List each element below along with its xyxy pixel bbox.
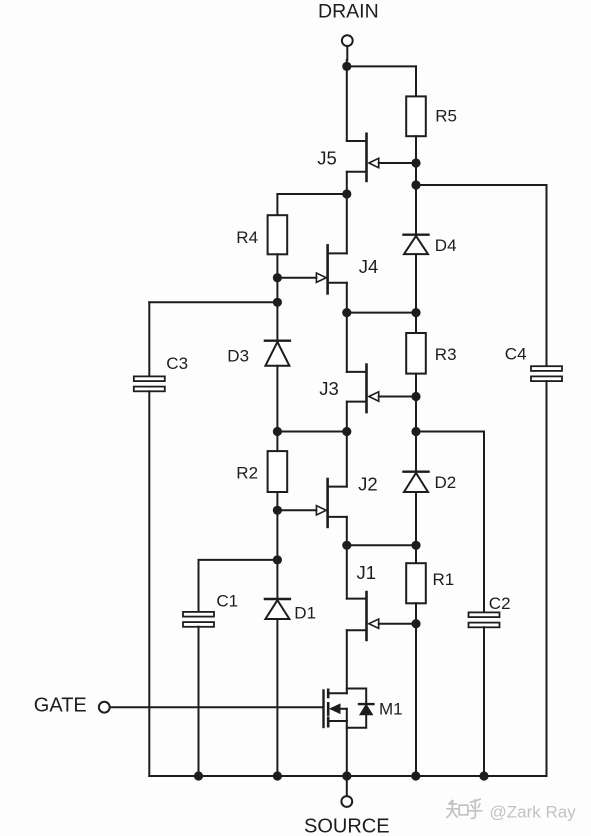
svg-text:R1: R1 <box>433 570 455 589</box>
svg-text:R2: R2 <box>236 463 258 482</box>
svg-text:C3: C3 <box>166 354 188 373</box>
svg-text:R4: R4 <box>236 228 258 247</box>
svg-text:C4: C4 <box>505 345 527 364</box>
svg-text:R3: R3 <box>435 345 457 364</box>
svg-text:J1: J1 <box>357 562 377 583</box>
svg-text:@Zark Ray: @Zark Ray <box>490 803 577 822</box>
svg-text:D4: D4 <box>435 236 457 255</box>
svg-text:D1: D1 <box>294 603 316 622</box>
svg-text:J2: J2 <box>358 474 378 495</box>
svg-text:M1: M1 <box>379 700 403 719</box>
svg-text:J4: J4 <box>359 256 379 277</box>
svg-text:J5: J5 <box>317 148 337 169</box>
svg-text:J3: J3 <box>319 378 339 399</box>
svg-text:C1: C1 <box>216 591 238 610</box>
svg-text:R5: R5 <box>435 107 457 126</box>
svg-text:DRAIN: DRAIN <box>318 1 379 23</box>
svg-text:GATE: GATE <box>34 695 87 717</box>
svg-text:D3: D3 <box>227 347 249 366</box>
svg-text:SOURCE: SOURCE <box>304 816 390 836</box>
svg-text:C2: C2 <box>489 594 511 613</box>
svg-text:D2: D2 <box>435 473 457 492</box>
